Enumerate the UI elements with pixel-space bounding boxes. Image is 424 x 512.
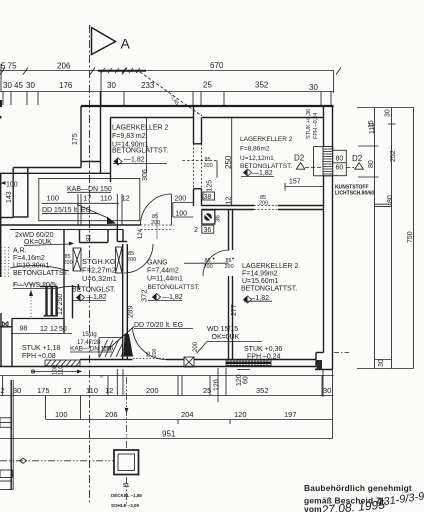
- svg-text:30: 30: [378, 359, 385, 367]
- svg-text:WD 15/15: WD 15/15: [207, 326, 238, 333]
- svg-text:m.: m.: [100, 374, 104, 379]
- bottom dim row B labels: [46, 396, 333, 425]
- svg-text:F=8,86m2: F=8,86m2: [240, 146, 270, 153]
- left bottom wall details: [0, 380, 13, 490]
- svg-text:352: 352: [255, 81, 269, 90]
- wall pier between top rooms: [194, 106, 202, 144]
- svg-text:951: 951: [162, 430, 176, 439]
- section line A vertical dash-dot: [89, 25, 91, 505]
- svg-text:STUK +0,36: STUK +0,36: [306, 109, 312, 139]
- svg-text:143: 143: [6, 191, 13, 203]
- door arc bottom: [133, 328, 167, 360]
- KAB box: [39, 179, 140, 226]
- left outer wall: [0, 173, 2, 277]
- svg-text:12: 12: [105, 386, 113, 395]
- svg-text:—1,82: —1,82: [86, 294, 107, 301]
- room label LAGERKELLER 2 top-left: [112, 125, 169, 166]
- svg-text:60: 60: [243, 376, 250, 384]
- svg-text:U=12,12m1: U=12,12m1: [240, 155, 274, 162]
- door arc right room: [203, 250, 229, 276]
- door X box STGH: [73, 248, 81, 271]
- labels 100 / 143: [0, 217, 13, 219]
- svg-text:200: 200: [204, 264, 213, 270]
- top dimension line 1: [0, 61, 341, 119]
- top dimension line 2: [0, 71, 334, 107]
- stair hatch bottom mid: [99, 338, 123, 358]
- svg-text:150: 150: [103, 347, 114, 353]
- dotted room border: [14, 283, 58, 285]
- GANG left wall assembly: [117, 225, 127, 360]
- bottom window hatched: [226, 360, 271, 366]
- svg-text:—1,82: —1,82: [124, 157, 145, 164]
- svg-text:STUK +1,18: STUK +1,18: [22, 345, 60, 352]
- svg-text:BETONGLATTST.: BETONGLATTST.: [13, 270, 69, 277]
- svg-text:175: 175: [72, 133, 79, 145]
- svg-text:FPH –0,24: FPH –0,24: [313, 113, 319, 139]
- svg-text:30: 30: [385, 109, 392, 117]
- S1 shaft: [111, 450, 142, 508]
- svg-text:200: 200: [64, 260, 73, 266]
- svg-text:17: 17: [63, 386, 71, 395]
- lower left door arc: [124, 244, 153, 273]
- bracket 100/110 rotated: [31, 364, 82, 375]
- top right dims: [357, 108, 414, 369]
- svg-text:197: 197: [284, 410, 297, 419]
- svg-text:U=10,30m1: U=10,30m1: [13, 263, 49, 270]
- svg-text:LAGERKELLER 2: LAGERKELLER 2: [242, 263, 299, 270]
- svg-text:200: 200: [193, 341, 199, 352]
- dotted wall opening (door): [141, 225, 174, 230]
- bottom dim row A: [0, 368, 334, 402]
- stair annotation: [70, 327, 134, 353]
- svg-text:100: 100: [175, 211, 187, 218]
- niche bracket 200/100: [173, 196, 194, 218]
- centerline v: [126, 377, 128, 449]
- svg-text:F=4,16m2: F=4,16m2: [13, 255, 45, 262]
- svg-text:289: 289: [126, 305, 135, 318]
- svg-text:120: 120: [234, 410, 247, 419]
- STGH.KG labels: [80, 230, 137, 284]
- svg-text:15stg: 15stg: [82, 332, 97, 338]
- svg-text:204: 204: [181, 410, 194, 419]
- svg-text:157: 157: [289, 179, 301, 186]
- dim row 98 12 12 50: [11, 326, 72, 334]
- svg-text:38: 38: [204, 194, 212, 201]
- svg-text:U=6,32m1: U=6,32m1: [82, 274, 117, 283]
- svg-text:25: 25: [203, 81, 212, 90]
- svg-text:LICHTSCH.80/60: LICHTSCH.80/60: [335, 191, 374, 197]
- svg-text:F—VWS 20/5: F—VWS 20/5: [13, 282, 56, 289]
- wall to stairs: [63, 230, 65, 334]
- svg-text:100: 100: [47, 193, 60, 202]
- svg-text:LAGERKELLER 2: LAGERKELLER 2: [240, 136, 293, 143]
- svg-text:LAGERKELLER 2: LAGERKELLER 2: [112, 125, 169, 132]
- svg-text:252: 252: [390, 150, 397, 162]
- svg-text:BETONGLATTST.: BETONGLATTST.: [112, 148, 168, 155]
- svg-text:176: 176: [59, 81, 73, 90]
- svg-text:BETONGLATTST.: BETONGLATTST.: [148, 284, 200, 291]
- svg-text:2: 2: [194, 227, 198, 234]
- svg-text:U=11,44m1: U=11,44m1: [147, 276, 183, 283]
- svg-text:36: 36: [216, 215, 222, 222]
- 38 box: [203, 192, 215, 200]
- svg-text:115: 115: [369, 123, 376, 134]
- svg-text:200: 200: [152, 348, 158, 357]
- svg-text:80: 80: [387, 195, 394, 203]
- room label LAGERKELLER 2 bottom right: [241, 263, 299, 303]
- svg-text:250: 250: [224, 155, 233, 169]
- svg-text:OK=0UK: OK=0UK: [212, 334, 240, 341]
- svg-text:F=14,99m2: F=14,99m2: [242, 271, 278, 278]
- svg-text:50: 50: [59, 326, 67, 333]
- svg-text:30: 30: [107, 81, 116, 90]
- dashed stub at y160: [183, 160, 218, 162]
- wall below stairs: [12, 318, 64, 320]
- svg-text:FPH +0,08: FPH +0,08: [22, 353, 56, 360]
- interior dim line x=231.7: [231, 118, 233, 206]
- svg-text:Baubehördlich genehmigt: Baubehördlich genehmigt: [304, 483, 412, 493]
- hatched sill left: [45, 360, 80, 366]
- svg-text:12 250: 12 250: [57, 293, 64, 315]
- svg-text:F=9,83 m2: F=9,83 m2: [112, 133, 146, 140]
- svg-text:DD 15/15 lt. EG: DD 15/15 lt. EG: [42, 207, 91, 214]
- room label LAGERKELLER 2 top-right (8,86): [240, 136, 293, 177]
- svg-text:110: 110: [59, 365, 65, 375]
- svg-text:100: 100: [6, 182, 18, 189]
- D2 labels: [294, 154, 363, 170]
- svg-text:SOHLE –3,00: SOHLE –3,00: [111, 503, 140, 508]
- right lower dim lines: [323, 370, 333, 439]
- svg-text:30: 30: [26, 81, 35, 90]
- svg-text:U=15,60m1: U=15,60m1: [242, 278, 278, 285]
- svg-text:352: 352: [256, 386, 269, 395]
- right room top wall: [202, 206, 324, 210]
- diagonal leader from 233: [140, 72, 202, 116]
- door leaf and arc upper GANG: [171, 194, 173, 225]
- svg-text:DD 70/20 lt. EG: DD 70/20 lt. EG: [134, 322, 183, 329]
- svg-text:175: 175: [37, 386, 50, 395]
- svg-text:120: 120: [214, 379, 221, 391]
- svg-text:STUK +0,36: STUK +0,36: [244, 346, 282, 353]
- svg-text:110: 110: [100, 193, 112, 202]
- mid-left horizontal walls: [0, 162, 110, 174]
- kab arrow: [77, 205, 108, 219]
- svg-text:D2: D2: [294, 154, 305, 163]
- svg-text:2xWD 60/20: 2xWD 60/20: [15, 232, 54, 239]
- top wall inner: [111, 117, 194, 119]
- dotted door jambs: [194, 144, 202, 189]
- X box door bottom: [184, 357, 194, 367]
- svg-text:277: 277: [231, 304, 238, 316]
- dotted walk line: [30, 284, 32, 318]
- svg-text:KAB—DN 150: KAB—DN 150: [67, 186, 112, 193]
- svg-text:98: 98: [20, 326, 28, 333]
- svg-text:80: 80: [336, 156, 344, 163]
- svg-text:124: 124: [138, 228, 144, 239]
- svg-text:750: 750: [407, 231, 414, 243]
- svg-text:80: 80: [368, 160, 375, 168]
- svg-text:45: 45: [14, 81, 23, 90]
- svg-text:200: 200: [225, 264, 234, 270]
- svg-text:BETONGLST.: BETONGLST.: [72, 287, 115, 294]
- small rects left edge: [3, 322, 9, 327]
- svg-text:100: 100: [55, 410, 68, 419]
- svg-text:110: 110: [86, 386, 98, 395]
- svg-text:30: 30: [13, 386, 21, 395]
- svg-text:60: 60: [336, 165, 344, 172]
- svg-text:BETONGLATTST.: BETONGLATTST.: [241, 286, 297, 293]
- svg-text:233: 233: [141, 81, 155, 90]
- svg-text:200: 200: [204, 163, 213, 169]
- svg-text:vom: vom: [304, 504, 322, 512]
- svg-text:306: 306: [142, 169, 149, 181]
- svg-text:200: 200: [259, 201, 268, 207]
- stamp: [304, 483, 424, 512]
- svg-text:200: 200: [127, 257, 136, 263]
- svg-text:206: 206: [105, 410, 118, 419]
- svg-text:30: 30: [3, 81, 12, 90]
- BETONGLST level: [72, 287, 115, 302]
- svg-text:17: 17: [83, 193, 91, 202]
- svg-text:206: 206: [57, 62, 71, 71]
- chimney: [194, 210, 222, 234]
- svg-text:670: 670: [210, 61, 224, 70]
- svg-text:200: 200: [146, 386, 159, 395]
- svg-text:36: 36: [204, 227, 212, 234]
- svg-text:12: 12: [122, 193, 130, 202]
- svg-text:GANG: GANG: [147, 260, 168, 267]
- svg-text:12: 12: [50, 326, 58, 333]
- duct column left: [13, 168, 28, 218]
- left upper wall: [81, 92, 111, 183]
- dotted insulation left: [2, 247, 9, 277]
- pier resumes: [194, 189, 202, 206]
- centerline h: [0, 460, 113, 462]
- section marker A triangle: [92, 28, 116, 55]
- svg-text:200: 200: [151, 220, 160, 226]
- svg-text:F=7,44m2: F=7,44m2: [147, 268, 179, 275]
- D2 window niche: [314, 147, 347, 176]
- svg-text:30: 30: [309, 83, 318, 92]
- svg-text:12: 12: [225, 197, 232, 205]
- svg-text:12: 12: [40, 326, 48, 333]
- wall below KAB box: [0, 225, 141, 230]
- svg-text:83: 83: [87, 234, 93, 241]
- right room left wall: [229, 210, 233, 360]
- A.R. room labels: [13, 248, 80, 291]
- heating meander / stair: [40, 287, 58, 316]
- top wall outer: [81, 105, 334, 107]
- bottom wall: [0, 353, 333, 370]
- svg-text:D2: D2: [352, 154, 363, 163]
- svg-text:—1,82: —1,82: [162, 294, 183, 301]
- svg-text:372: 372: [140, 289, 149, 302]
- svg-text:200: 200: [175, 196, 187, 203]
- svg-text:A: A: [121, 36, 131, 52]
- right building wall: [324, 106, 333, 370]
- GANG labels: [147, 260, 200, 302]
- svg-text:—1,82: —1,82: [252, 170, 273, 177]
- svg-text:125: 125: [207, 180, 214, 192]
- svg-text:30: 30: [323, 386, 331, 395]
- svg-text:A.R.: A.R.: [13, 248, 27, 255]
